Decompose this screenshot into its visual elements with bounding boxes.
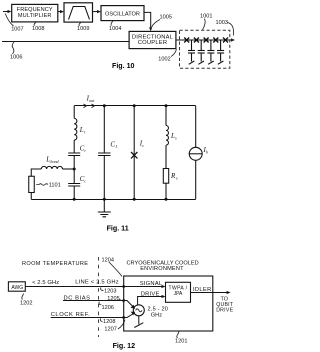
junction J1: [184, 38, 189, 43]
wire CJ branch bottom: [103, 156, 105, 200]
shunt capacitor and ground branch 2: [198, 40, 205, 64]
oscillator circle: [133, 305, 144, 316]
wire oscillator to directional coupler: [144, 12, 151, 27]
wire idler output: [191, 292, 228, 294]
svg-text:< 2.5 GHz: < 2.5 GHz: [32, 280, 59, 286]
inductor Ls: [166, 126, 168, 146]
resistor Rs box: [163, 169, 168, 184]
node dot line feedthrough: [122, 285, 125, 288]
shunt capacitor and ground branch 3: [207, 40, 214, 64]
current source bar: [189, 153, 202, 155]
josephson junction X: [131, 152, 137, 158]
svg-text:1205: 1205: [107, 296, 119, 302]
node dot dc bias feedthrough: [122, 299, 125, 302]
capacitor Cc: [68, 184, 80, 187]
wire current source to bottom rail: [195, 160, 197, 199]
block bandpass filter 1009: [64, 3, 93, 22]
node dot bottom CJ: [103, 198, 106, 201]
wire feedback line 1006 from directional coupler to left edge: [2, 41, 129, 43]
wire drive line: [138, 297, 162, 305]
wire Rs to bottom rail: [165, 183, 167, 199]
inductor Lbond horizontal: [41, 166, 62, 169]
svg-text:c: c: [142, 143, 144, 148]
wire Cr to node: [73, 156, 75, 170]
svg-text:Fig. 12: Fig. 12: [113, 342, 136, 350]
wire clock ref to oscillator: [124, 314, 133, 318]
svg-text:OSCILLATOR: OSCILLATOR: [105, 12, 140, 18]
svg-text:ENVIRONMENT: ENVIRONMENT: [140, 266, 184, 272]
bandpass filter symbol: [69, 7, 90, 20]
wire signal line: [124, 286, 162, 288]
svg-text:1005: 1005: [160, 14, 172, 20]
svg-text:MULTIPLIER: MULTIPLIER: [18, 13, 52, 19]
svg-text:c: c: [84, 179, 86, 184]
svg-text:COUPLER: COUPLER: [138, 40, 167, 46]
svg-text:1208: 1208: [103, 319, 115, 325]
svg-text:1202: 1202: [20, 300, 32, 306]
wire AWG line: [25, 286, 123, 288]
svg-text:1206: 1206: [102, 305, 114, 311]
wire junction branch: [133, 106, 135, 200]
arrowhead into coupler top: [149, 27, 152, 31]
block frequency multiplier 1008: [12, 4, 58, 22]
wire filter to oscillator: [93, 11, 98, 13]
svg-text:1004: 1004: [109, 26, 121, 32]
ground symbol: [98, 212, 111, 217]
cryostat box 1201: [124, 276, 213, 331]
ground stub: [103, 199, 105, 212]
arrowhead output of junction array: [231, 38, 235, 41]
shunt capacitor and ground branch 1: [188, 40, 195, 64]
svg-text:1204: 1204: [102, 257, 114, 263]
wire CJ branch top: [103, 106, 105, 153]
impedance box 1101: [29, 176, 35, 192]
arrowhead into frequency multiplier: [8, 10, 12, 13]
block directional coupler 1002: [129, 31, 176, 48]
junction J3: [204, 38, 209, 43]
current arrow on top rail: [84, 104, 87, 108]
svg-text:LINE < 2.5 GHz: LINE < 2.5 GHz: [75, 279, 119, 285]
node dot left mid: [73, 168, 76, 171]
node dot top Ls: [165, 104, 168, 107]
wire node to Cc: [73, 169, 75, 184]
svg-text:1101: 1101: [49, 182, 61, 188]
arrowhead clock into oscillator: [131, 312, 136, 316]
wire bottom rail: [31, 199, 195, 201]
wire input line into frequency multiplier: [3, 11, 9, 13]
node dot top junction: [133, 104, 136, 107]
current source Ib circle: [189, 147, 202, 160]
wire Cc to bottom rail: [73, 186, 75, 199]
node dot bottom Ls: [165, 198, 168, 201]
svg-text:1003: 1003: [216, 20, 228, 26]
svg-text:AWG: AWG: [11, 285, 23, 291]
wire node to Lbond: [63, 168, 75, 170]
svg-text:2.5 - 20: 2.5 - 20: [148, 306, 169, 312]
svg-text:J: J: [115, 144, 117, 149]
svg-text:1008: 1008: [32, 26, 44, 32]
wire left branch upper: [73, 106, 75, 119]
arrowhead signal into TWPA: [162, 285, 166, 288]
arrowhead into oscillator: [97, 10, 101, 13]
block oscillator 1004: [101, 6, 144, 21]
wire clock ref line: [51, 317, 124, 319]
leader squiggle to 1101 box: [36, 184, 48, 186]
wire Lbond to 1101 box: [31, 169, 41, 176]
node dot bottom junction: [133, 198, 136, 201]
svg-text:1001: 1001: [200, 13, 212, 19]
svg-text:bond: bond: [50, 159, 59, 164]
svg-text:1007: 1007: [11, 27, 23, 33]
arrowhead idler output: [227, 291, 231, 294]
arrowhead dc bias into oscillator: [131, 305, 136, 309]
wire multiplier to filter: [58, 11, 61, 13]
svg-text:1002: 1002: [158, 56, 170, 62]
svg-text:1203: 1203: [104, 288, 116, 294]
dashed boundary line 1204: [98, 257, 100, 337]
svg-text:out: out: [89, 98, 95, 103]
node dot top CJ: [103, 104, 106, 107]
svg-text:1201: 1201: [175, 339, 187, 345]
wire 1101 to bottom rail: [30, 193, 32, 200]
block AWG 1202: [8, 282, 25, 291]
svg-text:JPA: JPA: [174, 291, 183, 297]
svg-text:ROOM TEMPERATURE: ROOM TEMPERATURE: [22, 261, 88, 267]
junction J4: [213, 38, 218, 43]
svg-text:Fig. 10: Fig. 10: [112, 62, 135, 70]
wire Lr to Cr: [73, 140, 75, 153]
wire top rail: [74, 105, 196, 107]
capacitor Cr: [68, 153, 80, 156]
wire Ls branch top: [165, 106, 167, 126]
node dot bottom left branch: [73, 198, 76, 201]
arrowhead into filter: [60, 10, 64, 13]
wire dc bias to oscillator: [124, 301, 133, 307]
wire Ls to Rs: [165, 145, 167, 168]
ground tick oscillator: [134, 323, 143, 328]
svg-text:Fig. 11: Fig. 11: [107, 224, 129, 232]
wire right branch to current source: [195, 106, 197, 148]
svg-text:b: b: [206, 150, 208, 155]
arrowhead drive into TWPA: [162, 295, 166, 298]
junction J5: [223, 38, 228, 43]
svg-text:DRIVE: DRIVE: [216, 308, 233, 314]
svg-text:GHz: GHz: [151, 313, 162, 319]
svg-text:1009: 1009: [77, 26, 89, 32]
shunt capacitor and ground branch 4: [217, 40, 224, 64]
capacitor CJ: [98, 153, 110, 156]
dashed box 1001 josephson junction array: [180, 30, 230, 68]
sine wave inside oscillator: [136, 309, 142, 312]
wire coupler to junction array: [176, 39, 231, 41]
junction J2: [194, 38, 199, 43]
svg-text:1006: 1006: [10, 55, 22, 61]
node dot clock feedthrough: [122, 316, 125, 319]
inductor Lr: [74, 118, 77, 140]
wire DC bias line: [63, 300, 124, 302]
wire oscillator ground stub: [138, 316, 140, 325]
block TWPA/JPA: [166, 282, 191, 302]
svg-text:1207: 1207: [104, 327, 116, 333]
